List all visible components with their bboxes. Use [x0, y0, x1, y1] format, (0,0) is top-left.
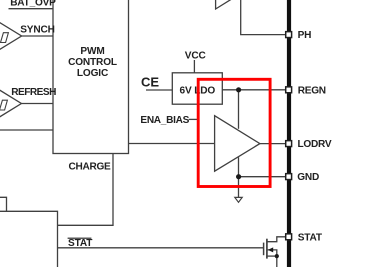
svg-text:STAT: STAT — [298, 232, 323, 243]
svg-text:REFRESH: REFRESH — [11, 87, 56, 98]
svg-text:SYNCH: SYNCH — [20, 24, 55, 35]
svg-text:CONTROL: CONTROL — [68, 57, 117, 68]
svg-text:PWM: PWM — [80, 46, 104, 57]
svg-text:ENA_BIAS: ENA_BIAS — [140, 115, 189, 126]
svg-text:STAT: STAT — [68, 238, 93, 249]
svg-text:VCC: VCC — [185, 50, 207, 61]
svg-text:PH: PH — [298, 30, 312, 41]
svg-text:CHARGE: CHARGE — [69, 161, 112, 172]
svg-text:GND: GND — [297, 172, 319, 183]
svg-text:CE: CE — [141, 74, 159, 89]
svg-text:REGN: REGN — [298, 85, 326, 96]
svg-text:LOGIC: LOGIC — [77, 68, 109, 79]
svg-text:LODRV: LODRV — [298, 139, 332, 150]
svg-text:BAT_OVP: BAT_OVP — [10, 0, 56, 8]
